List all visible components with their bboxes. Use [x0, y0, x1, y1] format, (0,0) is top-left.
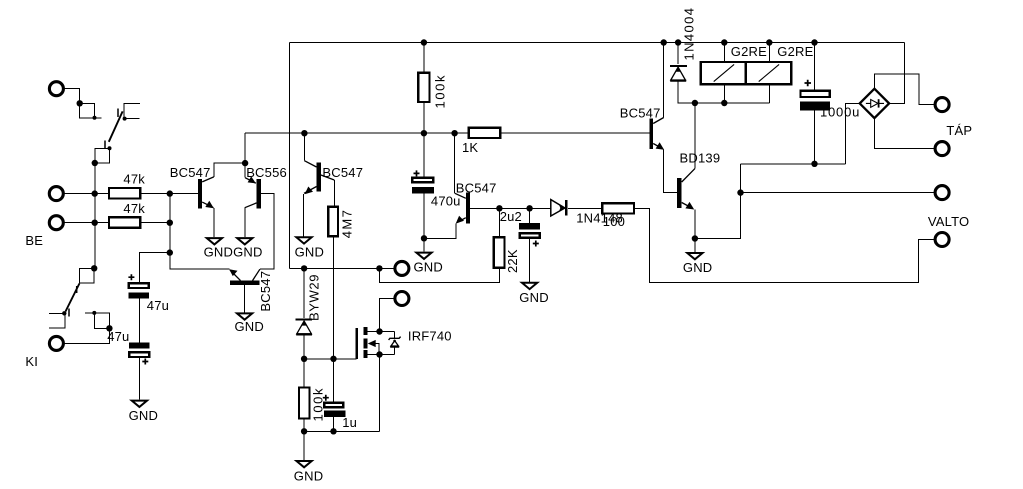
node Q5 collector / 22K [496, 205, 502, 211]
wire C1 to C2 [138, 299, 140, 343]
Q2 emitter wire [244, 163, 246, 178]
node D2 rail [675, 39, 681, 45]
wire bus to P7 [741, 192, 936, 194]
node source junction [376, 351, 382, 357]
switch S2 contact E [49, 313, 65, 328]
label C4 plus [533, 241, 539, 247]
node S2 contact F dot big [106, 325, 112, 331]
wire P1 to switch S1 [63, 89, 79, 104]
switch S1 lever tick top [117, 109, 119, 118]
ground sym Q1 [207, 238, 222, 244]
body diode D4 wire bottom [394, 348, 396, 355]
node C5 bottom [811, 161, 817, 167]
switch S2 square top [80, 268, 95, 283]
Q3 base to ground [244, 285, 246, 313]
wire Q7 emitter to right bus [695, 164, 741, 239]
ground sym Q2 [237, 238, 252, 244]
node right bus junction [737, 189, 743, 195]
capacitor C3 470u wire top [423, 133, 425, 178]
transistor Q7 BD139 base bar [677, 178, 682, 208]
node relay rail dots [721, 39, 727, 45]
bridge B1 inner diode [866, 102, 884, 104]
wire R6 bottom [379, 268, 499, 283]
svg-text:GND: GND [295, 244, 325, 259]
mid rail right of 1K [500, 132, 649, 134]
node relay coil junction [721, 100, 727, 106]
svg-text:TÁP: TÁP [946, 123, 972, 138]
node S1 pivot dot [77, 100, 83, 106]
wire D1 to R7 [568, 207, 602, 209]
Q1 emitter arrow [205, 201, 214, 208]
wire R1 to node [140, 193, 198, 195]
connector P3 [49, 216, 63, 230]
switch S1 lever tick bottom [104, 141, 106, 149]
node C1 top junction [167, 249, 173, 255]
wire P10 to drain [380, 299, 396, 332]
node R2 out junction [167, 220, 173, 226]
wire D2 to coil bus [678, 81, 769, 103]
Q6 collector [663, 43, 665, 118]
wire C3 to ground node [423, 194, 425, 239]
capacitor C2 47u plus plate [129, 352, 149, 357]
ground sym C4 [522, 283, 537, 289]
wire R7 to VALTO [634, 208, 936, 282]
Q2 base wire [260, 193, 274, 269]
Q1 emitter [202, 202, 213, 208]
label C6 plus [323, 395, 329, 401]
wire S1 to BE nodes [94, 163, 96, 268]
svg-text:2u2: 2u2 [500, 209, 522, 224]
resistor R5 1K [469, 128, 501, 138]
Q5 emitter [457, 218, 466, 223]
svg-text:47u: 47u [147, 298, 169, 313]
wire R3 to gate node [333, 236, 335, 358]
svg-text:GND: GND [519, 290, 549, 305]
svg-text:47k: 47k [123, 172, 145, 187]
svg-text:BD139: BD139 [680, 151, 721, 166]
Q8 body arrow [368, 340, 376, 347]
node S2 dot [91, 265, 97, 271]
node BYW29 top junction [301, 265, 307, 271]
resistor R1 47k [109, 188, 140, 199]
node S2 contact E dot [62, 311, 66, 315]
node S1 contact C dot bottom [92, 160, 98, 166]
body diode D4 triangle [391, 341, 398, 346]
Q2 emitter arrow [248, 176, 256, 183]
wire relay pins bottom [723, 84, 725, 103]
wire rail to bridge right [889, 43, 904, 104]
Q8 drain wire [368, 331, 395, 333]
svg-text:KI: KI [25, 354, 38, 369]
node Q5 base junction [451, 130, 457, 136]
capacitor C3 470u plus plate [412, 178, 433, 183]
capacitor C5 1000u wire top [814, 43, 816, 91]
svg-text:1K: 1K [462, 140, 478, 155]
node R4 top [421, 39, 427, 45]
body diode D4 wire top [394, 332, 396, 339]
node Q7 emitter junction [692, 235, 698, 241]
svg-text:100k: 100k [433, 74, 448, 109]
wire S1 contact A stub [80, 117, 102, 119]
Q8 body wire [375, 344, 379, 355]
connector P7 [935, 186, 949, 200]
capacitor C6 1u [333, 359, 335, 403]
Q4 emitter arrow [305, 187, 313, 195]
Q5 collector [470, 207, 529, 209]
wire P3 to R2 [63, 222, 109, 224]
Q7 emitter [682, 203, 693, 209]
svg-text:BC556: BC556 [246, 165, 287, 180]
connector P4 KI [49, 336, 63, 350]
svg-text:GND: GND [294, 468, 324, 483]
ground sym below C2 [132, 401, 147, 407]
mid rail left [245, 132, 469, 134]
Q2 collector [245, 203, 257, 208]
diode D2 1N4004 [677, 43, 679, 65]
ground sym source [297, 461, 312, 467]
Q3 collector [253, 269, 260, 280]
wire R2 to node [140, 222, 170, 224]
wire top rail left drop [289, 43, 291, 269]
svg-text:470u: 470u [431, 194, 461, 209]
svg-text:1000u: 1000u [820, 105, 860, 120]
wire node to ground [423, 238, 425, 251]
wire bridge bottom to P6 [874, 118, 935, 149]
svg-text:BC547: BC547 [258, 271, 273, 312]
node P2/R1 junction [92, 190, 98, 196]
svg-text:GND: GND [414, 260, 444, 275]
resistor R2 47k [109, 217, 140, 228]
node C5 rail [811, 39, 817, 45]
node R1 out junction [167, 190, 173, 196]
Q3 emitter arrow [229, 269, 237, 276]
wire C6 bottom [333, 417, 335, 432]
svg-text:BE: BE [25, 233, 43, 248]
Q1 collector [214, 163, 245, 177]
relay K1 box [701, 62, 792, 84]
resistor R7 100 [602, 203, 634, 213]
node S1 contact C dot top [108, 146, 112, 150]
capacitor C5 1000u plus plate [800, 91, 829, 97]
wire KI to S2 [63, 328, 109, 343]
wire minus bus [741, 163, 846, 165]
capacitor C4 2u2 minus plate [519, 223, 540, 229]
node R4 bottom [421, 130, 427, 136]
bridge rectifier B1 diamond [860, 89, 889, 118]
transistor Q5 BC547 base bar [466, 193, 470, 224]
connector P9 GND [395, 261, 409, 275]
switch S2 lever tick top [76, 286, 78, 293]
transistor Q1 BC547 base bar [198, 179, 202, 209]
wire node to ground [303, 431, 305, 460]
node 22K branch junction [376, 265, 382, 271]
body diode D4 zener bar [389, 337, 401, 340]
wire gate net [304, 358, 357, 360]
switch S2 contact F square [85, 313, 109, 328]
capacitor C6 1u minus plate [324, 411, 346, 417]
node gate net mid [330, 356, 336, 362]
resistor R6 22K [498, 208, 500, 237]
node C6 bottom [330, 428, 336, 434]
node emitter/cap junction [421, 235, 427, 241]
connector P6 [935, 142, 949, 156]
svg-text:47k: 47k [123, 201, 145, 216]
wire R8 bottom [303, 419, 305, 432]
wire bridge top to P5 [874, 74, 935, 105]
top rail [290, 42, 905, 44]
Q7 collector [694, 103, 696, 169]
resistor R4 100k top [418, 73, 429, 102]
Q5 emitter arrow [456, 216, 464, 224]
capacitor C5 1000u minus plate [800, 102, 830, 111]
wire Q4 emitter to ground [303, 194, 305, 236]
resistor R3 4M7 [328, 207, 338, 237]
capacitor C6 1u plus plate [324, 403, 343, 407]
svg-text:GND: GND [129, 408, 159, 423]
node P3/R2 junction [92, 220, 98, 226]
wire rail to R4 [423, 43, 425, 73]
switch S1 contact A square [80, 103, 95, 118]
body diode D4 apex dot [393, 340, 396, 343]
node Q7 collector junction [692, 100, 698, 106]
wire C2 to ground [138, 357, 140, 400]
switch S2 lever tick bottom [68, 309, 70, 317]
label C3 plus [414, 170, 420, 176]
wire C5 to minus bus [814, 111, 816, 164]
wire P2 to R1 [63, 193, 109, 195]
transistor Q2 BC556 base bar [257, 179, 261, 209]
relay K1 coil diagonal right [759, 64, 779, 81]
wire bus to bridge left [845, 103, 859, 163]
connector P2 [49, 187, 63, 201]
Q6 emitter [653, 144, 663, 149]
capacitor C2 47u minus plate [129, 342, 149, 348]
ground sym C3 [416, 253, 431, 259]
wire junction up to mid rail [244, 133, 246, 163]
wire node to C1 [139, 253, 169, 283]
diode D3 BYW29 [303, 268, 305, 318]
wire 2u2 to ground [529, 238, 531, 282]
mosfet Q8 IRF740 gate bar [356, 328, 358, 359]
mosfet Q8 channel bars [363, 327, 367, 335]
Q4 emitter [304, 187, 317, 194]
wire relay pins top [723, 43, 725, 63]
wire base bus vertical [169, 194, 171, 253]
svg-text:BC547: BC547 [456, 180, 497, 195]
Q7 emitter arrow [685, 202, 694, 210]
wire node to ground [694, 239, 696, 253]
capacitor C3 470u minus plate [412, 187, 434, 193]
svg-text:1u: 1u [342, 415, 357, 430]
ground sym Q4 [296, 237, 311, 243]
wire Q1 emitter to ground [213, 208, 215, 237]
svg-text:BC547: BC547 [170, 165, 211, 180]
connector P10 output [395, 292, 409, 306]
wire source down [379, 355, 381, 432]
capacitor C1 47u plus plate [129, 283, 149, 288]
svg-text:G2RE: G2RE [731, 44, 767, 59]
relay K1 coil diagonal left [714, 64, 734, 81]
label C2 plus [142, 359, 148, 365]
svg-text:BYW29: BYW29 [306, 274, 321, 321]
wire 2u2 top [529, 208, 531, 223]
wire Q6 emitter to Q7 base [664, 150, 677, 193]
svg-text:1N4004: 1N4004 [682, 7, 697, 61]
resistor R8 100k [303, 359, 305, 388]
svg-text:100: 100 [603, 214, 625, 229]
svg-text:IRF740: IRF740 [408, 329, 452, 344]
transistor Q6 BC547 base bar [649, 118, 653, 149]
svg-text:47u: 47u [107, 329, 129, 344]
ground sym Q7 [687, 253, 702, 259]
ground sym Q3 [237, 313, 252, 319]
switch S2 lever [66, 284, 80, 312]
Q5 base wire [454, 133, 456, 193]
node gate net left [301, 356, 307, 362]
svg-text:GND: GND [683, 260, 713, 275]
diode D1 1N4148 [530, 207, 551, 209]
node bottom left [301, 428, 307, 434]
label C1 plus [128, 274, 134, 280]
transistor Q4 BC547 base bar [317, 163, 321, 192]
Q8 source wire [368, 354, 395, 356]
label C5 plus [805, 80, 812, 87]
switch S1 lever [109, 111, 123, 141]
node S2 contact F dot small [92, 311, 96, 315]
wire bottom node bus [304, 430, 379, 432]
node drain junction [376, 328, 382, 334]
node S1 contact A dot [93, 116, 97, 120]
svg-text:4M7: 4M7 [340, 209, 355, 239]
Q4 base wire [303, 133, 305, 161]
node C4 2u2 junction [526, 205, 532, 211]
wire D3 to gate node [303, 334, 305, 359]
node Q4 base junction [301, 130, 307, 136]
node Q6 collector rail [661, 39, 667, 45]
svg-text:GNDGND: GNDGND [204, 244, 263, 259]
svg-text:VALTO: VALTO [928, 214, 969, 229]
connector P1 [49, 82, 63, 96]
wire Q7 emitter down [694, 210, 696, 239]
Q6 emitter arrow [656, 142, 665, 149]
connector P8 [935, 233, 949, 247]
node S1 contact B dot [123, 117, 127, 121]
capacitor C1 47u minus plate [129, 293, 149, 299]
svg-text:G2RE: G2RE [777, 44, 813, 59]
svg-text:GND: GND [235, 319, 265, 334]
switch S1 contact B [124, 103, 140, 118]
Q3 emitter wire [170, 253, 230, 270]
wire gnd net horizontal [290, 267, 396, 269]
Q4 collector [321, 175, 334, 180]
wire Q5 emitter to node [424, 224, 456, 239]
svg-text:22K: 22K [505, 249, 520, 273]
svg-text:BC547: BC547 [620, 106, 661, 121]
transistor Q3 BC547 sideways bar [230, 281, 260, 285]
relay K1 divider [745, 62, 747, 84]
node Q1/Q2 collector junction [242, 160, 248, 166]
wire R4 to mid rail [423, 102, 425, 133]
body diode D4 base bar [390, 346, 399, 348]
switch S1 contact C square [95, 148, 110, 163]
capacitor C4 2u2 plus plate [520, 233, 540, 238]
connector P5 [935, 98, 949, 112]
